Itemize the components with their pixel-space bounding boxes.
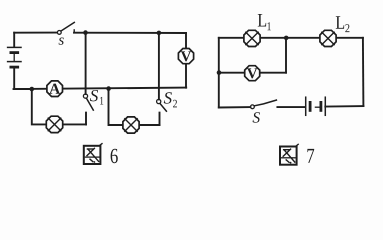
junction dot top wire at S1 feeder bbox=[83, 30, 88, 35]
wire: fig7 left vertical bbox=[218, 38, 220, 108]
wire: fig6 right side to voltmeter bbox=[185, 33, 187, 48]
label A (ammeter) bbox=[49, 84, 60, 94]
wire: fig6 middle wire bbox=[14, 88, 187, 90]
label S1 bbox=[90, 90, 98, 101]
label L2 bbox=[336, 16, 344, 28]
ammeter A1 bbox=[47, 81, 63, 97]
wire: voltmeter branch horizontal bbox=[219, 72, 286, 74]
wire: S1 lower stub bbox=[85, 113, 87, 125]
wire: fig7 top wire bbox=[219, 37, 363, 39]
voltmeter V2 (fig7) bbox=[245, 66, 260, 81]
caption digit 7 bbox=[307, 149, 314, 163]
wire: fig6 battery to bottom-left corner bbox=[14, 68, 32, 89]
junction dot middle wire at lamp branch bbox=[106, 86, 111, 91]
caption digit 6 bbox=[111, 149, 118, 163]
wire: fig7 bottom wire to battery bbox=[277, 106, 304, 108]
switch S blade (fig7) bbox=[254, 100, 276, 106]
junction dot fig7 top wire bbox=[284, 36, 289, 41]
switch S contact (fig7) bbox=[251, 105, 255, 109]
label S (bottom switch fig7) bbox=[253, 112, 260, 122]
caption glyph "tu" fig6 bbox=[84, 144, 102, 164]
battery G1 (two cells, left side) bbox=[8, 47, 21, 67]
switch S2 blade bbox=[160, 104, 166, 111]
caption glyph "tu" fig7 bbox=[280, 144, 298, 164]
wire: middle lamp to S2 stub bbox=[140, 124, 160, 126]
junction dot top wire at S2 feeder bbox=[157, 31, 162, 36]
switch S1 blade bbox=[87, 99, 94, 111]
lamp L1 bbox=[244, 30, 260, 46]
label V (voltmeter fig6) bbox=[181, 51, 191, 61]
wire: fig6 top-left vertical bbox=[13, 33, 15, 47]
label L1 bbox=[258, 14, 266, 26]
wire: middle lamp branch bbox=[109, 89, 123, 125]
switch S2 contact bbox=[157, 99, 161, 103]
wire: lamp branch bottom-left bbox=[32, 89, 46, 124]
wire: fig7 right vertical bbox=[362, 38, 365, 106]
battery G2 (fig7 bottom, two cells) bbox=[306, 97, 326, 115]
voltmeter V1 (fig6 right side) bbox=[178, 49, 193, 64]
wire: lamp to S1 stub bbox=[63, 123, 86, 125]
junction dot middle wire left bbox=[30, 87, 35, 92]
switch s (open, top wire) bbox=[57, 22, 74, 34]
lamp L2 bbox=[320, 30, 336, 46]
wire: voltmeter branch riser bbox=[285, 38, 287, 73]
wire: fig6 voltmeter to middle wire bbox=[185, 64, 187, 88]
junction dot fig7 left vertical bbox=[217, 70, 222, 75]
wire: S2 feeder from top wire bbox=[158, 33, 160, 100]
label V (voltmeter fig7) bbox=[247, 68, 257, 78]
wire: battery to bottom-right corner bbox=[325, 105, 363, 108]
label s (top switch fig6) bbox=[59, 38, 64, 45]
wire: S2 lower stub bbox=[159, 113, 161, 125]
lamp EL1 (bottom left) bbox=[46, 116, 62, 132]
lamp EL2 (bottom middle) bbox=[123, 117, 139, 133]
wire: fig7 bottom wire left segment bbox=[219, 106, 251, 108]
label S2 bbox=[164, 92, 172, 103]
wire: S1 feeder from top wire bbox=[85, 33, 87, 94]
wire: fig6 top wire left segment bbox=[14, 32, 57, 34]
switch S1 contact bbox=[83, 94, 87, 98]
wire: fig6 top wire main run bbox=[74, 32, 186, 34]
